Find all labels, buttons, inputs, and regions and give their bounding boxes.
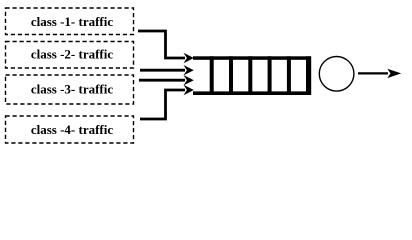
departure arrow [358, 69, 401, 78]
wire: class-2 straight connector to queue [140, 65, 194, 75]
svg-text:class -1- traffic: class -1- traffic [31, 14, 114, 29]
wire: class-3 straight connector to queue [139, 75, 194, 85]
class 1 source box [6, 8, 134, 35]
queue buffer (open-ended ladder) [193, 56, 311, 95]
class 2 source box [6, 42, 134, 69]
svg-text:class -2- traffic: class -2- traffic [31, 46, 114, 61]
class 4 source box [6, 116, 134, 143]
wire: class-4 elbow connector to queue [140, 85, 194, 119]
server circle [319, 57, 354, 92]
svg-text:class -4- traffic: class -4- traffic [31, 122, 114, 137]
wire: class-1 elbow connector to queue [138, 31, 194, 63]
svg-text:class -3- traffic: class -3- traffic [31, 81, 114, 96]
class 3 source box [6, 75, 134, 104]
